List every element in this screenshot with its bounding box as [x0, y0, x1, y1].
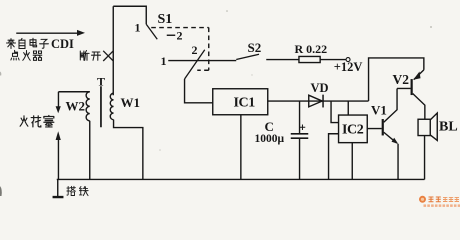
- text 点火器 (hand-drawn): [11, 50, 42, 60]
- char 开: [92, 52, 101, 60]
- wire top hat to S1 contact 1: [113, 6, 146, 24]
- watermark text row 1: [429, 197, 441, 203]
- svg-text:S2: S2: [248, 40, 262, 55]
- svg-text:S1: S1: [158, 12, 173, 27]
- wire capacitor bottom lead: [299, 138, 301, 179]
- wire IC2 bottom pin to ground: [351, 143, 353, 180]
- wire W2 bottom lead: [89, 121, 91, 180]
- winding W2 coil: [86, 92, 90, 121]
- ground symbol stub: [57, 179, 59, 196]
- X mark 断开 point: [103, 51, 113, 61]
- svg-text:1000μ: 1000μ: [255, 133, 285, 145]
- text 来自电子 (hand-drawn): [7, 38, 49, 48]
- wire IC1 output line: [268, 100, 369, 102]
- diode VD: [309, 95, 323, 107]
- capacitor C plates: [291, 133, 309, 135]
- char 器: [33, 51, 42, 60]
- char 来: [7, 39, 16, 49]
- winding W1 coil: [110, 93, 113, 119]
- wire drop to IC2 left pin A: [331, 101, 339, 123]
- wire V2 base line from V1 collector: [397, 87, 411, 89]
- speaker BL box: [418, 119, 430, 135]
- text 搭铁 (hand-drawn): [67, 186, 88, 195]
- char 花: [31, 116, 41, 127]
- svg-text:V2: V2: [393, 72, 410, 87]
- V2 emitter arrow head (PNP, into bar): [413, 72, 420, 80]
- switch S1 pole 2 fixed line (contact 1): [168, 60, 236, 62]
- svg-text:2: 2: [177, 29, 183, 43]
- transistor V2 collector to speaker: [413, 94, 425, 120]
- switch S1 pole 1 blade: [146, 24, 157, 39]
- svg-text:W2: W2: [66, 99, 86, 114]
- char 塞: [44, 116, 54, 127]
- transistor V2 emitter (from top rail): [414, 70, 424, 80]
- box IC2: [339, 115, 368, 143]
- svg-text:CDI: CDI: [51, 37, 74, 51]
- watermark text row 2: [424, 204, 460, 207]
- ground symbol bar: [53, 196, 64, 198]
- char 自: [19, 38, 25, 48]
- spark gap down arrow head: [56, 106, 61, 113]
- wire R to +12V terminal: [320, 59, 346, 61]
- svg-text:IC2: IC2: [342, 123, 364, 138]
- transistor V1 emitter with arrow: [384, 132, 397, 143]
- resistor R 0.22: [299, 56, 320, 62]
- arrow from CDI (input): [16, 32, 78, 34]
- svg-text:VD: VD: [311, 81, 329, 95]
- winding W2 top lead: [58, 91, 89, 93]
- char 火: [20, 116, 28, 126]
- wire S2 to R: [266, 59, 299, 61]
- spark gap upper electrode (down arrow): [57, 92, 59, 107]
- spark gap up arrow head: [56, 131, 61, 140]
- arrowheads: [56, 30, 421, 144]
- char 电: [30, 38, 37, 47]
- wire speaker to ground rail: [424, 136, 426, 180]
- wire IC2 left pin B to ground: [329, 134, 339, 180]
- spark gap lower electrode (up arrow): [57, 140, 59, 180]
- char 火: [23, 51, 30, 61]
- watermark logo circle: [419, 196, 426, 203]
- box IC1: [213, 89, 268, 115]
- char 搭: [67, 186, 76, 195]
- wire drop to IC2 top pin: [347, 101, 349, 115]
- node +12V terminal circle: [346, 58, 350, 62]
- wire W1 bottom lead jog: [114, 120, 143, 180]
- speaker BL horn: [430, 113, 437, 140]
- transformer T core: [100, 86, 102, 127]
- svg-text:W1: W1: [121, 95, 141, 110]
- char 铁: [79, 186, 88, 195]
- char 子: [40, 39, 49, 48]
- capacitor C 1000u lead top: [299, 101, 301, 134]
- switch S2 blade: [236, 54, 259, 59]
- svg-text:1: 1: [135, 21, 141, 35]
- text 火花塞 (hand-drawn): [20, 116, 54, 127]
- svg-text:2: 2: [192, 43, 198, 57]
- char 点: [11, 50, 19, 60]
- ground rail: [57, 178, 425, 180]
- text 断开 (hand-drawn): [80, 51, 100, 61]
- svg-text:+12V: +12V: [334, 60, 363, 74]
- transistor V1 base bar: [382, 119, 384, 135]
- svg-text:IC1: IC1: [234, 96, 256, 111]
- svg-text:C: C: [265, 119, 274, 134]
- CDI arrow head: [77, 30, 85, 36]
- capacitor + sign: [300, 125, 306, 130]
- char 断: [80, 51, 89, 61]
- wire CDI input node vertical: [112, 6, 114, 95]
- wire IC2 output to V1 base: [367, 128, 382, 130]
- switch S1 pole1 contact 2 dash: [167, 34, 176, 36]
- V1 emitter arrow head: [392, 138, 399, 144]
- wire riser diode junction to top rail, over to V2: [369, 58, 424, 101]
- switch S1 pole 2 blade: [185, 50, 205, 79]
- svg-text:BL: BL: [439, 120, 458, 135]
- svg-text:1: 1: [161, 54, 167, 68]
- svg-text:V1: V1: [371, 103, 387, 118]
- wire pole2 to IC1: [185, 79, 213, 103]
- transistor V1 collector: [384, 88, 397, 122]
- scan smudge left edge: [0, 186, 2, 196]
- S1 mechanical link dashed: [151, 28, 209, 71]
- wire IC1 bottom pin to ground rail: [240, 115, 242, 180]
- svg-text:R 0.22: R 0.22: [295, 42, 328, 56]
- transistor V2 base bar: [411, 79, 413, 95]
- dust specks: [226, 10, 228, 12]
- svg-text:T: T: [97, 75, 105, 89]
